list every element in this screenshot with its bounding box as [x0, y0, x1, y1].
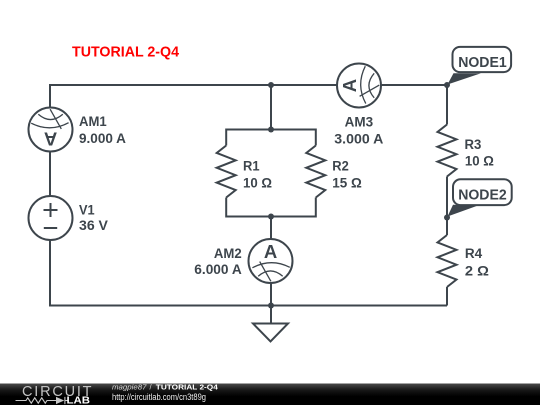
svg-text:NODE1: NODE1	[458, 55, 507, 71]
svg-text:A: A	[339, 79, 360, 92]
svg-text:TUTORIAL 2-Q4: TUTORIAL 2-Q4	[156, 382, 219, 391]
svg-text:A: A	[264, 241, 277, 262]
svg-text:V1: V1	[79, 202, 95, 217]
svg-text:R2: R2	[332, 159, 349, 174]
svg-text:NODE2: NODE2	[458, 187, 507, 203]
svg-text:http://circuitlab.com/cn3t89g: http://circuitlab.com/cn3t89g	[112, 392, 206, 402]
svg-text:3.000 A: 3.000 A	[334, 131, 383, 146]
svg-text:10 Ω: 10 Ω	[465, 154, 494, 169]
svg-text:R1: R1	[243, 158, 260, 173]
svg-text:9.000 A: 9.000 A	[79, 131, 126, 146]
svg-text:AM1: AM1	[79, 114, 107, 129]
svg-text:15 Ω: 15 Ω	[332, 176, 362, 191]
svg-text:R3: R3	[465, 137, 482, 152]
svg-text:AM2: AM2	[214, 246, 242, 261]
svg-text:AM3: AM3	[345, 115, 374, 130]
svg-text:36 V: 36 V	[79, 218, 108, 233]
svg-text:A: A	[44, 129, 57, 150]
svg-text:10 Ω: 10 Ω	[243, 176, 272, 191]
svg-text:magpie87: magpie87	[112, 382, 147, 391]
svg-text:2 Ω: 2 Ω	[465, 263, 489, 278]
svg-text:TUTORIAL 2-Q4: TUTORIAL 2-Q4	[72, 43, 180, 60]
svg-text:R4: R4	[465, 246, 483, 261]
svg-text:LAB: LAB	[67, 396, 91, 405]
svg-text:6.000 A: 6.000 A	[194, 262, 242, 277]
